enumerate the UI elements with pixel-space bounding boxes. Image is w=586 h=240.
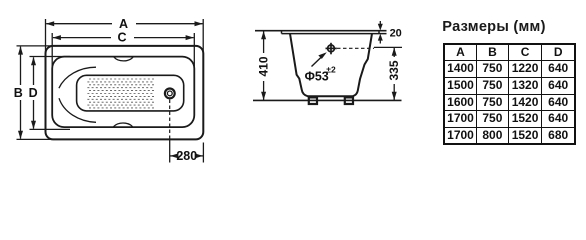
svg-text:A: A — [119, 17, 128, 31]
extension line for 335 — [374, 46, 402, 48]
dimension 335 — [387, 48, 401, 101]
svg-text:±2: ±2 — [326, 65, 336, 75]
dimension 20 — [378, 21, 402, 44]
drain centre dashed line (cross-section) — [337, 47, 374, 49]
dimension C — [52, 31, 194, 72]
svg-text:280: 280 — [176, 149, 197, 163]
svg-text:335: 335 — [387, 60, 401, 80]
svg-text:D: D — [29, 86, 38, 100]
cross-section rim top line — [255, 30, 387, 32]
soap recess bump (bottom edge) — [114, 123, 133, 127]
svg-text:20: 20 — [390, 27, 402, 39]
svg-text:Φ53: Φ53 — [305, 70, 329, 84]
dimension 410 — [257, 31, 271, 100]
label Φ53±2 with leader arrow — [305, 52, 336, 83]
dimension D — [29, 57, 70, 130]
dimension B — [14, 46, 62, 139]
sloped end-wall arc (top view, left) — [59, 67, 96, 88]
right foot — [345, 97, 353, 104]
bathtub inner rim edge (top view) — [52, 57, 194, 128]
dimension A — [46, 17, 204, 62]
soap recess bump (top edge) — [114, 57, 133, 61]
svg-text:410: 410 — [257, 56, 271, 76]
ground line — [253, 99, 402, 101]
drain centre line (dashed) — [169, 100, 171, 141]
drain mark (cross-section) — [326, 43, 337, 55]
svg-text:C: C — [117, 31, 126, 45]
left foot — [309, 97, 317, 104]
anti-slip texture pattern — [87, 79, 155, 108]
drain (top view) — [165, 89, 175, 99]
cross-section rim underside — [282, 31, 387, 34]
cross-section tub body — [290, 34, 372, 97]
svg-text:B: B — [14, 86, 23, 100]
bathtub outer rim (top view) — [46, 46, 204, 139]
dimensions table — [443, 43, 576, 146]
dimension 280 — [170, 140, 204, 163]
table heading: Размеры (мм) — [442, 19, 545, 35]
basin floor outline (top view) — [77, 75, 184, 111]
